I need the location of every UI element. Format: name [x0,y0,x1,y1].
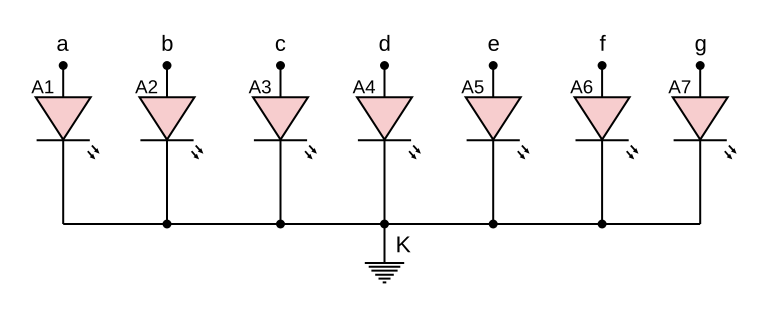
node K label [397,236,410,252]
LED A4 [357,97,421,159]
label A6 [570,80,592,93]
node f label [600,35,606,51]
wire A3 cathode to bus [280,140,282,224]
wire node g to A7 anode [699,66,701,99]
node a label [57,39,68,51]
wire node a to A1 anode [62,66,64,99]
junction A2 cathode on bus [163,220,172,229]
wire node e to A5 anode [492,66,494,99]
terminal dot node e [489,61,498,70]
LED A6 [575,97,639,159]
junction A3 cathode on bus [276,220,285,229]
label A4 [353,80,375,93]
LED A2 [140,97,204,159]
node d label [380,35,390,51]
wire node f to A6 anode [601,66,603,99]
ground [365,263,404,282]
junction A4 cathode on bus [380,220,389,229]
junction A6 cathode on bus [598,220,607,229]
terminal dot node d [380,61,389,70]
junction A5 cathode on bus [489,220,498,229]
wire node d to A4 anode [384,66,386,99]
LED A7 [673,97,737,159]
terminal dot node a [59,61,68,70]
terminal dot node c [276,61,285,70]
LED A1 [36,97,100,159]
terminal dot node g [696,61,705,70]
label A7 [668,80,690,93]
node g label [696,39,706,55]
wire bus to ground [384,224,386,263]
node b label [163,35,173,51]
label A3 [249,80,271,93]
wire node b to A2 anode [166,66,168,99]
wire cathode bus (node K) [63,223,700,225]
LED A5 [466,97,530,159]
wire A2 cathode to bus [166,140,168,224]
wire A1 cathode to bus [62,140,64,224]
wire A5 cathode to bus [492,140,494,224]
node e label [489,39,499,51]
label A5 [461,80,483,93]
label A1 [31,80,53,93]
wire A6 cathode to bus [601,140,603,224]
wire A7 cathode to bus [699,140,701,224]
terminal dot node b [163,61,172,70]
node c label [276,39,285,51]
wire A4 cathode to bus [384,140,386,224]
terminal dot node f [598,61,607,70]
wire node c to A3 anode [280,66,282,99]
label A2 [135,80,157,93]
LED A3 [253,97,317,159]
